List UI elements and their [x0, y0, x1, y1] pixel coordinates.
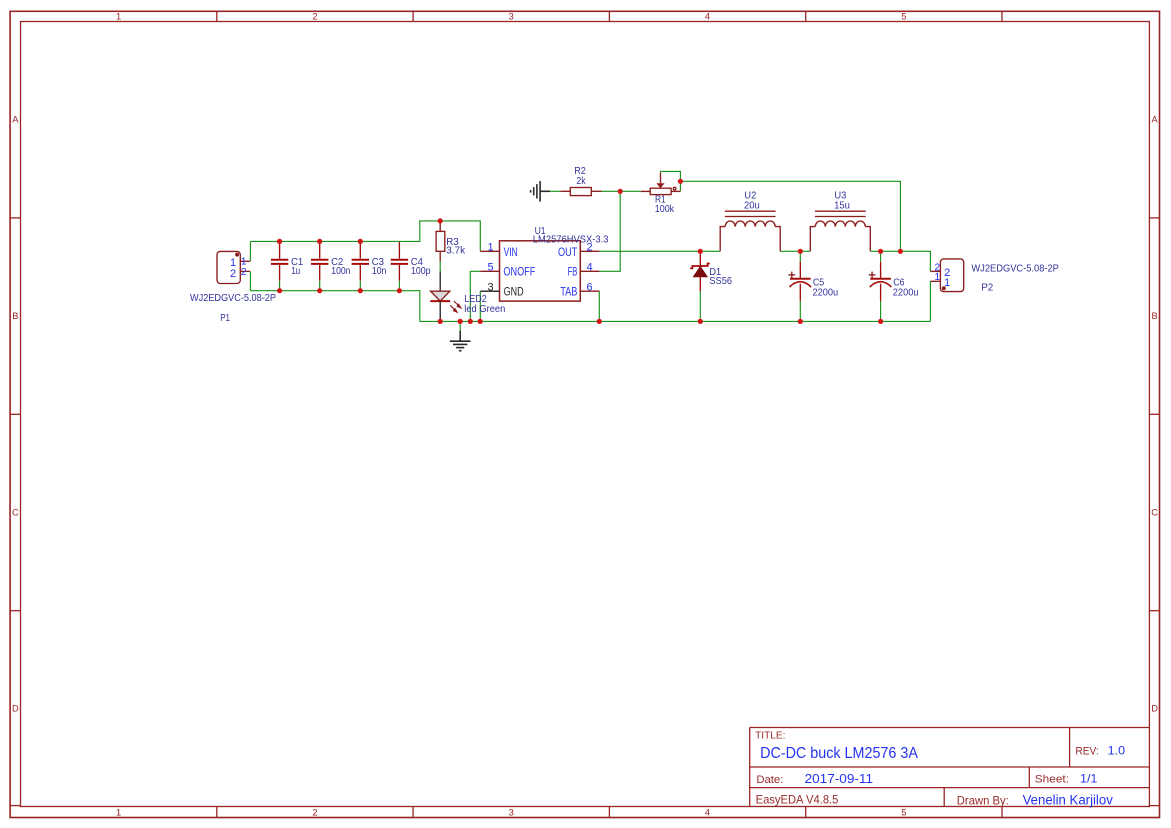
P1 inner pin 2 — [230, 268, 236, 280]
R1 value label 100k — [655, 204, 675, 215]
svg-text:5: 5 — [901, 807, 906, 817]
wire OUT net: U1 OUT to U2 — [599, 250, 720, 252]
svg-text:1: 1 — [944, 277, 950, 289]
row labels left — [12, 115, 19, 714]
wire R2 left to ground symbol — [550, 190, 560, 192]
svg-text:2: 2 — [230, 268, 236, 280]
svg-text:6: 6 — [587, 282, 593, 294]
svg-text:VIN: VIN — [504, 247, 518, 259]
junction ONOFF bottom — [468, 319, 473, 324]
svg-text:TITLE:: TITLE: — [755, 730, 785, 741]
junction ground stem — [458, 319, 463, 324]
svg-text:EasyEDA V4.8.5: EasyEDA V4.8.5 — [756, 793, 839, 807]
junction C1 top — [277, 239, 282, 244]
LED LED2 — [430, 271, 461, 321]
inductor U2 — [720, 211, 780, 251]
U1 pin number 1 — [488, 242, 494, 254]
EasyEDA version text — [756, 793, 839, 807]
svg-text:LM2576HVSX-3.3: LM2576HVSX-3.3 — [533, 235, 609, 246]
C1 reference label — [291, 257, 303, 268]
LED2 value label led Green — [464, 304, 505, 315]
U1 pin name OUT — [558, 247, 577, 259]
svg-text:5: 5 — [901, 11, 906, 21]
wire C5 bottom segment — [799, 301, 801, 322]
connector P1 — [217, 251, 250, 283]
Drawn By value Venelin Karjilov — [1023, 793, 1113, 808]
svg-text:OUT: OUT — [558, 247, 577, 259]
svg-text:TAB: TAB — [560, 287, 577, 299]
svg-text:4: 4 — [705, 807, 710, 817]
Sheet value 1/1 — [1080, 771, 1098, 785]
C1 value label 1u — [291, 266, 300, 277]
P1 inner pin 1 — [230, 257, 236, 269]
U1 pin number 6 — [587, 282, 593, 294]
Date label — [756, 774, 783, 786]
wire GND net: P1 pin2 drop — [249, 271, 251, 290]
svg-text:2: 2 — [312, 11, 317, 21]
junction U1 GND bottom — [478, 319, 483, 324]
C5 value label 2200u — [813, 287, 839, 298]
U1 pin name GND — [504, 287, 524, 299]
svg-text:4: 4 — [705, 11, 710, 21]
svg-text:1/1: 1/1 — [1080, 771, 1098, 785]
C3 value label 10n — [372, 266, 387, 277]
U1 pin number 4 — [587, 262, 593, 274]
U1 pin name VIN — [504, 247, 518, 259]
P2 pin number 1 — [934, 271, 940, 283]
D1 value label SS56 — [709, 276, 732, 287]
wire R3 to LED2 segment — [439, 261, 441, 271]
junction C3 bottom — [358, 288, 363, 293]
U3 value label 15u — [834, 201, 850, 212]
ground symbol left of R2 — [531, 181, 551, 202]
connector P2 — [930, 259, 963, 292]
wire C6 top segment — [880, 251, 882, 262]
svg-text:SS56: SS56 — [709, 276, 732, 287]
P2 pin number 2 — [934, 261, 940, 273]
svg-text:1: 1 — [934, 271, 940, 283]
svg-text:3: 3 — [488, 282, 494, 294]
svg-text:P1: P1 — [220, 313, 230, 324]
svg-text:C: C — [1151, 507, 1158, 517]
wire OUT net top run — [680, 181, 900, 251]
P1 designator label — [220, 313, 230, 324]
REV label — [1075, 746, 1098, 758]
U2 value label 20u — [744, 201, 760, 212]
svg-text:1u: 1u — [291, 266, 300, 277]
svg-text:Sheet:: Sheet: — [1035, 773, 1069, 785]
wire GND symbol stem segment — [459, 321, 461, 330]
U1 pin number 5 — [488, 262, 494, 274]
P2 inner pin 1 — [944, 277, 950, 289]
wire C4 bottom segment — [398, 281, 400, 291]
column tick marks — [217, 11, 1002, 817]
svg-text:B: B — [12, 311, 18, 321]
D1 reference label — [709, 267, 721, 278]
ground symbol below LED — [450, 331, 471, 351]
svg-text:WJ2EDGVC-5.08-2P: WJ2EDGVC-5.08-2P — [190, 293, 276, 304]
svg-text:A: A — [1151, 115, 1158, 125]
junction C5 bottom — [798, 319, 803, 324]
R1 reference label — [655, 194, 666, 205]
junction OUT riser — [898, 249, 903, 254]
junction FB node — [618, 189, 623, 194]
title block TITLE label — [755, 730, 785, 741]
U1 pin name FB — [568, 267, 578, 279]
svg-text:D: D — [12, 704, 19, 714]
svg-text:2k: 2k — [576, 176, 586, 187]
svg-text:C: C — [12, 507, 19, 517]
title block border — [750, 728, 1150, 807]
wire GND net: bottom capacitor rail — [250, 291, 419, 322]
C4 value label 100p — [411, 266, 431, 277]
junction TAB bottom — [597, 319, 602, 324]
svg-text:1: 1 — [488, 242, 494, 254]
svg-text:P2: P2 — [981, 282, 993, 293]
capacitor C5 2200u — [789, 262, 812, 301]
svg-text:3: 3 — [509, 11, 514, 21]
svg-text:A: A — [12, 115, 19, 125]
C6 value label 2200u — [893, 287, 919, 298]
svg-text:D: D — [1151, 704, 1158, 714]
junction R3 top — [438, 218, 443, 223]
wire OUT net: U3 to P2 — [870, 251, 930, 271]
junction C2 bottom — [317, 288, 322, 293]
C4 reference label — [411, 257, 423, 268]
wire U1 GND pin drop — [479, 291, 481, 321]
diode D1 SS56 — [690, 251, 710, 291]
wire OUT net: U2 to U3 — [780, 250, 810, 252]
U1 pin name TAB — [560, 287, 577, 299]
svg-text:WJ2EDGVC-5.08-2P: WJ2EDGVC-5.08-2P — [971, 264, 1059, 275]
wire VIN net: P1 pin1 riser — [249, 241, 251, 261]
svg-text:10n: 10n — [372, 266, 387, 277]
wire C2 bottom segment — [319, 281, 321, 291]
svg-text:5: 5 — [488, 262, 494, 274]
capacitor C3 — [352, 242, 369, 281]
svg-text:DC-DC buck LM2576 3A: DC-DC buck LM2576 3A — [760, 745, 918, 762]
junction R1 wiper — [678, 179, 683, 184]
junction LED2 bottom — [438, 319, 443, 324]
wire P2 pin1 drop — [929, 281, 931, 321]
REV value 1.0 — [1108, 744, 1126, 758]
Date value 2017-09-11 — [805, 772, 873, 786]
wire FB junction to R1 left — [620, 190, 641, 192]
R3 value label 3.7k — [446, 246, 466, 257]
svg-text:1: 1 — [116, 807, 121, 817]
svg-text:1.0: 1.0 — [1108, 744, 1126, 758]
op IC U1 LM2576 — [480, 241, 599, 301]
wire C1 bottom segment — [279, 281, 281, 291]
C2 reference label — [331, 257, 343, 268]
wire C3 bottom segment — [359, 281, 361, 291]
potentiometer R1 — [641, 173, 681, 195]
capacitor C1 — [271, 242, 288, 281]
svg-text:2: 2 — [312, 807, 317, 817]
Drawn By label — [957, 794, 1009, 808]
svg-text:FB: FB — [568, 267, 578, 279]
C3 reference label — [372, 257, 384, 268]
resistor R2 — [560, 188, 601, 196]
svg-text:100k: 100k — [655, 204, 675, 215]
LED2 reference label — [464, 294, 487, 305]
resistor R3 — [436, 221, 445, 261]
svg-text:100n: 100n — [331, 266, 350, 277]
wire C6 bottom segment — [880, 301, 882, 322]
wire VIN net: top capacitor rail — [250, 221, 480, 251]
svg-text:15u: 15u — [834, 201, 850, 212]
title text DC-DC buck LM2576 3A — [760, 745, 918, 762]
P1 pin number 2 — [241, 266, 247, 278]
svg-text:4: 4 — [587, 262, 593, 274]
C6 reference label — [893, 278, 905, 289]
P1 pin number 1 — [241, 256, 247, 268]
svg-text:1: 1 — [116, 11, 121, 21]
junction C5 top — [798, 249, 803, 254]
U1 pin name ONOFF — [503, 267, 535, 279]
wire R1 wiper loop — [661, 171, 681, 191]
svg-text:GND: GND — [504, 287, 524, 299]
svg-text:2200u: 2200u — [893, 287, 919, 298]
junction C4 bottom — [397, 288, 402, 293]
svg-text:20u: 20u — [744, 201, 760, 212]
capacitor C4 — [391, 242, 408, 281]
P2 inner pin 2 — [944, 267, 950, 279]
wire ONOFF net — [470, 271, 480, 321]
svg-text:2017-09-11: 2017-09-11 — [805, 772, 873, 786]
R2 value label 2k — [576, 176, 586, 187]
svg-text:REV:: REV: — [1075, 746, 1098, 758]
svg-text:3.7k: 3.7k — [446, 246, 466, 257]
wire TAB pin drop — [598, 291, 600, 321]
inductor U3 — [810, 211, 870, 251]
C5 reference label — [813, 278, 825, 289]
svg-text:Venelin Karjilov: Venelin Karjilov — [1023, 793, 1113, 808]
capacitor C6 2200u — [869, 262, 892, 301]
column labels bottom — [116, 807, 906, 817]
junction C1 bottom — [277, 288, 282, 293]
capacitor C2 — [311, 242, 328, 281]
bottom strip end caps — [10, 805, 1159, 807]
wire C5 top segment — [799, 251, 801, 262]
svg-text:B: B — [1151, 311, 1157, 321]
svg-text:3: 3 — [509, 807, 514, 817]
svg-text:100p: 100p — [411, 266, 431, 277]
wire FB net: R2 to junction to FB pin — [599, 191, 620, 271]
U1 pin number 2 — [587, 242, 593, 254]
U2 reference label — [744, 191, 756, 202]
junction C3 top — [358, 239, 363, 244]
U1 pin number 3 — [488, 282, 494, 294]
P2 designator label — [981, 282, 993, 293]
junction D1 top — [698, 249, 703, 254]
svg-text:led Green: led Green — [464, 304, 505, 315]
junction C6 bottom — [878, 319, 883, 324]
junction C6 top — [878, 249, 883, 254]
wire GND net: bottom bus rail — [420, 320, 931, 322]
junction D1 bottom — [698, 319, 703, 324]
U1 value label LM2576HVSX-3.3 — [533, 235, 609, 246]
Sheet label — [1035, 773, 1069, 785]
row labels right — [1151, 115, 1158, 714]
R2 reference label — [574, 166, 586, 177]
C2 value label 100n — [331, 266, 350, 277]
U1 reference label — [535, 226, 546, 237]
svg-text:ONOFF: ONOFF — [503, 267, 535, 279]
svg-text:Drawn By:: Drawn By: — [957, 794, 1009, 808]
svg-text:Date:: Date: — [756, 774, 783, 786]
svg-text:2: 2 — [241, 266, 247, 278]
P2 part name label — [971, 264, 1059, 275]
junction C2 top — [317, 239, 322, 244]
R3 reference label — [446, 237, 459, 248]
row tick marks — [10, 218, 1159, 611]
wire D1 bottom segment — [699, 291, 701, 321]
U3 reference label — [834, 191, 846, 202]
column labels top — [116, 11, 906, 21]
P1 part name label — [190, 293, 276, 304]
svg-text:2200u: 2200u — [813, 287, 839, 298]
